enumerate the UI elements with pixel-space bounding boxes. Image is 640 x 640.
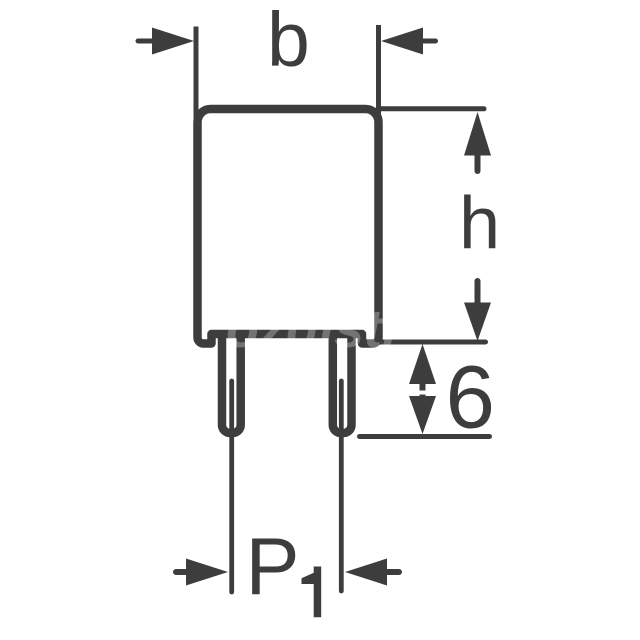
arrow h down: [464, 281, 491, 341]
arrow 6 down: [409, 395, 436, 435]
dimension line 6 bottom: [360, 434, 490, 439]
dimension line h bottom / 6 top: [360, 340, 486, 345]
extension line b left: [194, 27, 199, 126]
svg-text:P: P: [246, 522, 300, 612]
wire W2 (right lead wire): [339, 381, 344, 591]
lead L1 (left crimped lead): [222, 334, 241, 433]
svg-text:h: h: [459, 182, 500, 265]
arrow P1 left: [176, 559, 228, 586]
arrow b right: [381, 28, 436, 55]
wire W1 (left lead wire): [229, 381, 234, 592]
svg-text:6: 6: [446, 347, 496, 447]
svg-text:ozdisti: ozdisti: [226, 299, 398, 359]
arrow b left: [138, 28, 194, 55]
lead L2 (right crimped lead): [333, 334, 352, 433]
arrow h up: [464, 112, 491, 171]
dimension line h top: [378, 106, 484, 111]
capacitor body outline: [198, 109, 379, 344]
svg-text:b: b: [267, 0, 310, 83]
extension line b right: [376, 25, 381, 125]
arrow 6 up: [409, 344, 436, 391]
arrow P1 right: [345, 559, 399, 586]
